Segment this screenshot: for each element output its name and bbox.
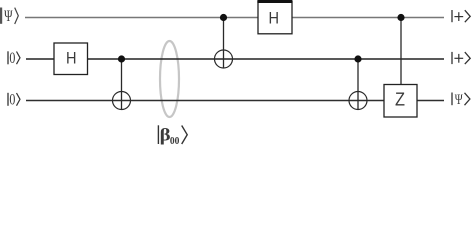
svg-text:Ψ: Ψ bbox=[4, 8, 13, 25]
svg-text:0: 0 bbox=[9, 50, 15, 67]
H gate box wire q0 (top edge thick/clipped) bbox=[257, 0, 292, 34]
ket |0> input label wire q2 bbox=[8, 92, 20, 109]
ket |0> input label wire q1 bbox=[8, 50, 20, 67]
svg-text:0: 0 bbox=[9, 92, 15, 109]
svg-text:Ψ: Ψ bbox=[455, 92, 464, 108]
wire q2 (bottom) bbox=[26, 100, 444, 102]
ket |psi> input label wire q0 bbox=[1, 8, 18, 26]
thick clipped top edge of H box bbox=[257, 0, 292, 3]
svg-text:Z: Z bbox=[395, 90, 405, 110]
control dot on q1 bbox=[118, 55, 125, 62]
svg-text:H: H bbox=[269, 9, 280, 27]
controlled-Z: control q0 -> Z gate q2 bbox=[384, 14, 417, 117]
wire: CZ vertical link bbox=[400, 18, 402, 85]
CNOT 3: control q1 -> target q2 bbox=[349, 55, 367, 109]
control dot on q1 bbox=[354, 55, 361, 62]
XOR target on q2 bbox=[113, 92, 131, 110]
ket |+> output label wire q1 bbox=[452, 52, 470, 64]
CNOT 1: control q1 -> target q2 bbox=[113, 55, 131, 109]
Z gate box on q2 bbox=[384, 85, 417, 118]
XOR target on q2 bbox=[349, 92, 367, 110]
svg-text:H: H bbox=[66, 49, 77, 67]
XOR target on q1 bbox=[215, 50, 233, 68]
control dot on q0 bbox=[220, 14, 227, 21]
ket |psi> output label wire q2 bbox=[452, 92, 470, 108]
wire q1 (middle) bbox=[26, 58, 444, 60]
CNOT 2: control q0 -> target q1 bbox=[215, 14, 233, 68]
wire: CNOT-2 vertical link bbox=[223, 18, 225, 69]
ket |+> output label wire q0 bbox=[452, 10, 470, 22]
control dot on q0 bbox=[397, 14, 404, 21]
ket |beta00> label under ellipse bbox=[158, 125, 187, 147]
wire: CNOT-1 vertical link bbox=[121, 59, 123, 110]
H gate box wire q1 bbox=[54, 43, 88, 75]
svg-text:00: 00 bbox=[170, 135, 180, 147]
wire q0 (top) bbox=[25, 17, 444, 19]
wire: CNOT-3 vertical link bbox=[357, 59, 359, 110]
Bell-pair ellipse (gray) bbox=[160, 41, 179, 117]
